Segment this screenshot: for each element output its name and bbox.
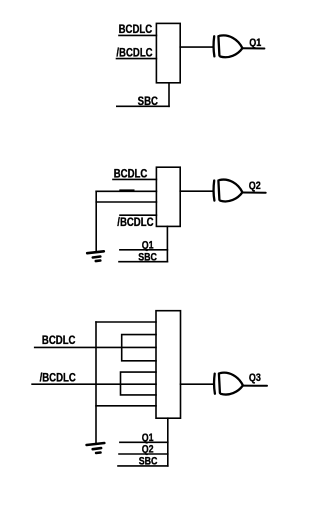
- svg-text:SBC: SBC: [139, 456, 158, 468]
- svg-text:/BCDLC: /BCDLC: [40, 372, 76, 385]
- svg-text:SBC: SBC: [138, 95, 158, 108]
- svg-text:/BCDLC: /BCDLC: [116, 47, 152, 60]
- svg-text:BCDLC: BCDLC: [42, 334, 76, 347]
- svg-text:BCDLC: BCDLC: [114, 168, 148, 181]
- svg-text:Q1: Q1: [142, 432, 154, 444]
- svg-text:Q3: Q3: [249, 372, 261, 384]
- svg-text:Q2: Q2: [142, 444, 154, 456]
- svg-text:BCDLC: BCDLC: [119, 23, 153, 36]
- svg-text:Q1: Q1: [249, 37, 261, 49]
- svg-text:SBC: SBC: [138, 252, 157, 264]
- svg-text:Q2: Q2: [249, 180, 261, 192]
- svg-text:/BCDLC: /BCDLC: [117, 216, 153, 229]
- svg-text:Q1: Q1: [142, 240, 154, 252]
